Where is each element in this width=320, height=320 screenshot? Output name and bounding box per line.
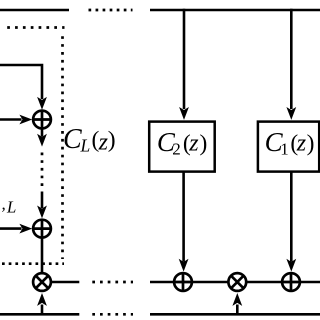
wire top rail drop to box C1: [290, 9, 293, 109]
wire adder B1 to multiplier M2: [192, 281, 229, 284]
wire down-arrow out of adder A1: [41, 128, 44, 136]
wire top rail drop to box C2: [183, 9, 186, 109]
svg-text:): ): [108, 127, 116, 153]
wire main line dotted gap: [92, 281, 133, 284]
arrowhead up into multiplier M1: [38, 294, 47, 305]
svg-text:z: z: [188, 131, 199, 157]
wire main line out of adder B2: [300, 281, 320, 284]
arrowhead right into adder A2: [20, 224, 31, 233]
svg-text:): ): [200, 130, 208, 156]
multiplier M2 (circle-times): [228, 273, 246, 291]
wire top-left horizontal (input bus, upper rail): [0, 9, 69, 12]
arrowhead down into adder B1: [179, 260, 188, 271]
adder A2 (circle-plus): [33, 220, 51, 238]
svg-text:C: C: [63, 124, 82, 155]
wire main line into adder B1: [150, 281, 174, 284]
wire box C2 to adder B1: [182, 172, 185, 262]
wire dotted vertical trunk x=62.5: [61, 36, 64, 259]
wire top-right horizontal rail: [150, 9, 320, 12]
wire bottom rail dotted continuation: [92, 313, 133, 316]
wire multiplier M2 to adder B2: [246, 281, 282, 284]
wire upper-left branch into adder A1 (corner): [0, 64, 42, 99]
svg-text:L: L: [6, 197, 16, 216]
svg-text:2: 2: [172, 139, 181, 158]
arrowhead down into adder A2: [38, 206, 47, 217]
wire bottom-left horizontal rail: [0, 313, 79, 316]
wire adder A2 to multiplier M1: [41, 238, 44, 274]
wire dotted horizontal lower-left branch: [2, 262, 64, 265]
box C2(z): [149, 122, 215, 172]
multiplier M1 (circle-times): [33, 273, 51, 291]
arrowhead down into adder A1: [38, 98, 47, 109]
svg-text:): ): [307, 130, 315, 156]
adder B1 (circle-plus): [174, 273, 192, 291]
adder B2 (circle-plus): [282, 273, 300, 291]
svg-text:L: L: [80, 135, 91, 155]
arrowhead up into multiplier M2: [233, 294, 242, 305]
arrowhead down into box C2: [180, 108, 189, 119]
wire box C1 to adder B2: [290, 172, 293, 262]
label C_2(z): [157, 127, 207, 159]
label ,L (cropped subscript): [2, 195, 17, 217]
arrowhead down below adder A1: [38, 135, 47, 146]
box C1(z): [258, 122, 319, 172]
wire main output line from M1: [51, 281, 79, 284]
wire dotted vertical between adders x=42: [41, 153, 44, 187]
svg-text:,: ,: [2, 195, 6, 214]
wire stem into adder A2: [41, 192, 44, 209]
label C_1(z): [265, 127, 315, 159]
label C_L(z): [63, 124, 116, 155]
arrowhead down into adder B2: [287, 260, 296, 271]
wire left input arrow into adder A1: [0, 118, 22, 121]
wire up-arrow from bottom rail into M2: [236, 305, 239, 315]
wire bottom-right horizontal rail: [150, 313, 320, 316]
wire dotted horizontal upper-left branch: [7, 26, 64, 29]
adder A1 (circle-plus): [33, 111, 51, 129]
wire top rail dotted continuation: [89, 9, 133, 12]
arrowhead right into adder A1: [20, 115, 31, 124]
wire left input arrow into adder A2: [0, 227, 22, 230]
arrowhead down into box C1: [287, 108, 296, 119]
svg-text:z: z: [296, 131, 307, 157]
svg-text:1: 1: [280, 139, 289, 158]
wire up-arrow from bottom rail into M1: [41, 305, 44, 315]
